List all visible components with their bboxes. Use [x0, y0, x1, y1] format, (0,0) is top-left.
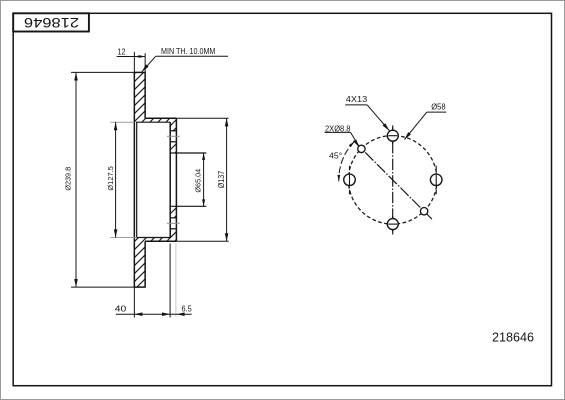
D58 underline — [427, 111, 447, 113]
flange left edge — [169, 122, 171, 237]
hatch flange seg4 — [170, 229, 176, 238]
dim 40/6.5 line — [116, 313, 192, 315]
45 arc arrow bottom — [337, 175, 340, 181]
small hole NW 8.8 — [358, 145, 365, 152]
band bottom edge — [134, 286, 146, 288]
svg-text:Ø58: Ø58 — [431, 103, 446, 112]
2XD8.8 arrow — [354, 140, 360, 147]
dim D137 line — [226, 118, 228, 241]
dim 12 ext right — [144, 53, 146, 72]
hat bottom outer surface — [145, 240, 176, 242]
hole right 13 — [430, 174, 442, 186]
dim 40 ext left — [133, 287, 135, 317]
hatch band top — [134, 72, 145, 118]
45 deg dimension arc — [339, 142, 355, 182]
bolt hole top centerline — [167, 135, 180, 137]
D58 leader — [405, 112, 427, 139]
small hole SE 8.8 — [420, 208, 427, 215]
min thickness underline — [156, 55, 228, 57]
bottom hole horizontal tick — [388, 223, 397, 225]
top hole horizontal tick — [388, 135, 397, 137]
outboard face line — [133, 72, 135, 287]
dim D65.04 arrows — [202, 153, 205, 160]
left hole vertical tick — [349, 166, 351, 194]
flange right edge — [175, 118, 177, 241]
svg-text:218646: 218646 — [24, 15, 79, 30]
min thickness arrow — [141, 64, 149, 72]
inner back face line — [136, 122, 138, 237]
4X13 arrow — [383, 123, 391, 131]
svg-text:Ø239.8: Ø239.8 — [64, 167, 73, 191]
dim 12 ext left — [133, 52, 135, 73]
hatch hat top wall — [135, 118, 177, 122]
dim 6.5 ext faint — [175, 244, 177, 317]
dim D137 arrows — [225, 118, 229, 126]
title box — [13, 13, 89, 31]
dim D137 ext top — [176, 117, 228, 119]
svg-text:40: 40 — [115, 304, 127, 313]
hatch flange seg1 — [170, 122, 176, 131]
bolt hole top lower edge — [170, 141, 176, 143]
hole left 13 — [344, 174, 356, 186]
dim D127.5 ext bottom — [111, 237, 137, 239]
dim D239.8 ext bottom — [71, 286, 134, 288]
bore top edge + ext — [170, 152, 206, 154]
hatch flange seg3 — [170, 206, 176, 218]
dim 6.5 arrow — [177, 312, 185, 316]
min thickness leader — [142, 56, 156, 71]
dim D127.5 line — [115, 122, 117, 237]
vertical centerline — [392, 125, 394, 234]
svg-text:Ø65.04: Ø65.04 — [194, 169, 203, 193]
bolt circle — [348, 136, 437, 225]
2XD8.8 leader — [351, 132, 359, 145]
dim 40 ext right — [169, 244, 171, 318]
svg-text:Ø127.5: Ø127.5 — [106, 166, 115, 190]
4X13 leader — [367, 105, 389, 131]
diagonal centerline 45deg — [354, 141, 432, 219]
dim D127.5 arrows — [114, 122, 118, 130]
band right edge top — [144, 72, 146, 118]
dim D137 ext bottom — [176, 240, 228, 242]
dim 12 line — [117, 56, 146, 58]
dim 40 arrows — [134, 312, 142, 316]
hat bottom inner surface — [136, 237, 170, 239]
4X13 underline — [345, 104, 367, 106]
dim D127.5 ext top — [111, 121, 135, 123]
bolt hole top upper edge — [170, 130, 176, 132]
vertical centerline solid through top hole — [392, 128, 394, 145]
2XD8.8 underline — [325, 131, 351, 133]
dim D65.04 line — [203, 153, 205, 206]
bolt hole bottom upper edge — [170, 217, 176, 219]
dim D239.8 arrows — [74, 72, 78, 80]
svg-text:MIN TH. 10.0MM: MIN TH. 10.0MM — [161, 47, 216, 56]
dim D239.8 ext top — [71, 71, 134, 73]
right hole vertical tick — [435, 166, 437, 194]
hat top inner surface — [136, 121, 170, 123]
45 arc arrow top — [349, 140, 356, 147]
band right edge bottom — [144, 241, 146, 287]
hole bottom 13 — [387, 219, 398, 230]
hatch flange seg2 — [170, 142, 176, 153]
svg-text:218646: 218646 — [492, 330, 534, 345]
svg-text:12: 12 — [117, 48, 126, 57]
hole top 13 — [387, 130, 398, 141]
svg-text:Ø137: Ø137 — [216, 171, 226, 189]
hatch band bottom — [134, 241, 145, 287]
D58 arrow — [403, 132, 411, 141]
dim D239.8 line — [75, 72, 77, 287]
bolt hole bottom centerline — [167, 222, 180, 224]
vertical centerline solid through bottom hole — [392, 216, 394, 232]
dim 12 arrows — [134, 55, 140, 58]
band top edge — [134, 71, 146, 73]
hat top outer surface — [145, 117, 176, 119]
svg-text:45°: 45° — [329, 152, 342, 161]
hatch hat bottom wall — [135, 238, 177, 242]
bolt hole bottom lower edge — [170, 228, 176, 230]
svg-text:4X13: 4X13 — [346, 95, 368, 104]
bore bottom edge + ext — [170, 205, 206, 207]
svg-text:6.5: 6.5 — [182, 304, 193, 313]
